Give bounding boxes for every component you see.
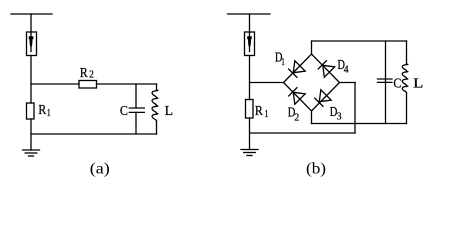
svg-text:3: 3	[337, 111, 342, 122]
svg-text:R: R	[255, 104, 264, 119]
svg-text:1: 1	[281, 57, 284, 68]
svg-text:L: L	[413, 76, 423, 91]
svg-text:2: 2	[89, 70, 94, 81]
svg-text:4: 4	[344, 64, 349, 75]
svg-text:L: L	[165, 104, 173, 119]
svg-text:R: R	[38, 103, 47, 118]
svg-text:2: 2	[294, 112, 299, 123]
svg-text:1: 1	[265, 109, 269, 120]
svg-text:(a): (a)	[90, 161, 110, 178]
svg-text:R: R	[80, 66, 89, 81]
svg-text:(b): (b)	[306, 161, 326, 178]
svg-text:1: 1	[47, 108, 51, 119]
svg-text:C: C	[120, 104, 128, 119]
svg-text:C: C	[393, 77, 401, 92]
